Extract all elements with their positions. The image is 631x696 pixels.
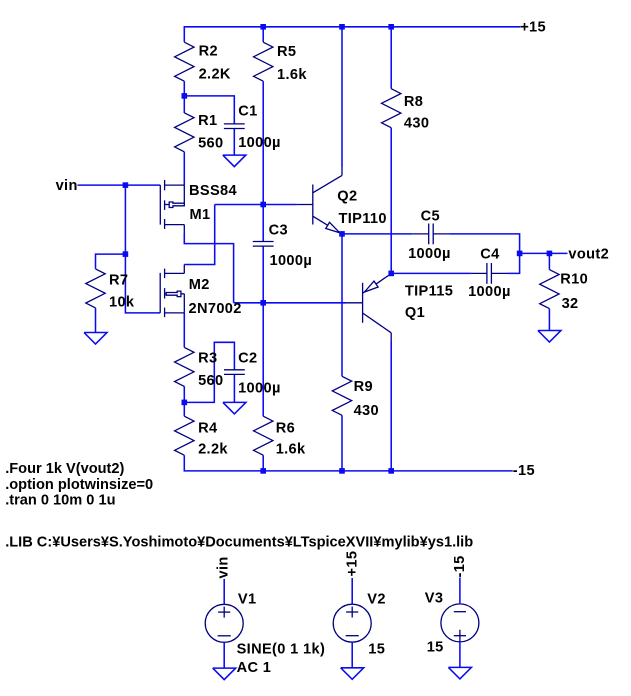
wire M1 drain to lower node [184, 233, 233, 303]
svg-text:M2: M2 [189, 277, 210, 293]
junction C (+15 / R8) [388, 24, 394, 30]
svg-text:R9: R9 [354, 379, 373, 395]
junction A (+15 / R5) [260, 24, 266, 30]
capacitor C3 [253, 242, 274, 247]
wire C3 bottom lead [262, 246, 264, 303]
svg-text:2.2K: 2.2K [199, 67, 231, 83]
wire R5 top lead [262, 27, 264, 42]
svg-text:.option plotwinsize=0: .option plotwinsize=0 [5, 477, 153, 493]
svg-text:R10: R10 [560, 272, 588, 288]
capacitor C2 [224, 370, 245, 375]
ground ground at R7 [84, 333, 107, 345]
svg-text:Q1: Q1 [405, 305, 425, 321]
svg-text:10k: 10k [109, 295, 135, 311]
wire Q1 collector to -15 [390, 341, 392, 471]
transistor Q1 PNP TIP115 [347, 274, 392, 341]
resistor R2 [175, 42, 194, 81]
resistor R4 [175, 416, 194, 455]
svg-text:TIP110: TIP110 [339, 211, 387, 227]
svg-text:1.6k: 1.6k [277, 67, 307, 83]
resistor R7 [86, 269, 105, 308]
ground ground at C1 [223, 155, 246, 167]
wire R6 top lead [262, 303, 264, 416]
wire V1 bottom lead [223, 642, 225, 668]
capacitor C1 [224, 124, 245, 129]
svg-text:V3: V3 [425, 590, 444, 606]
resistor R3 [175, 347, 194, 386]
svg-text:1000µ: 1000µ [408, 246, 451, 262]
wire R4 top lead [183, 402, 185, 416]
junction I (C5 / C4 / vout2) [517, 251, 523, 257]
wire Q1 emitter to C4 [391, 272, 471, 274]
svg-text:R3: R3 [198, 350, 217, 366]
svg-text:C2: C2 [238, 350, 257, 366]
svg-text:.LIB C:¥Users¥S.Yoshimoto¥Docu: .LIB C:¥Users¥S.Yoshimoto¥Documents¥LTsp… [5, 534, 473, 550]
svg-text:+15: +15 [520, 20, 546, 36]
svg-text:560: 560 [198, 373, 223, 389]
svg-text:C4: C4 [480, 246, 500, 262]
transistor Q2 NPN TIP110 [297, 167, 342, 234]
svg-text:C3: C3 [269, 223, 288, 239]
junction P (-15 / Q1 collector) [388, 468, 394, 474]
svg-text:R1: R1 [198, 113, 217, 129]
svg-text:1000µ: 1000µ [238, 380, 281, 396]
junction F (C3 top / Q2 base) [260, 202, 266, 208]
resistor R6 [254, 416, 273, 455]
voltage source V3 [441, 604, 479, 642]
svg-text:M1: M1 [190, 207, 211, 223]
svg-text:R7: R7 [109, 272, 128, 288]
svg-text:-15: -15 [452, 555, 468, 577]
svg-text:R2: R2 [199, 44, 218, 60]
svg-text:+15: +15 [345, 551, 361, 577]
C4 leads [471, 272, 508, 274]
wire R8 bottom lead [390, 128, 392, 274]
resistor R9 [332, 376, 351, 415]
svg-text:1.6k: 1.6k [276, 442, 306, 458]
svg-text:430: 430 [404, 116, 429, 132]
svg-text:Q2: Q2 [337, 189, 357, 205]
wire upper node to Q2 base [215, 204, 297, 206]
wire R1 bottom lead [183, 152, 185, 185]
junction B (+15 / Q2 collector) [339, 24, 345, 30]
ground ground at V2 [341, 668, 364, 680]
svg-text:C1: C1 [238, 104, 257, 120]
svg-text:R8: R8 [404, 94, 423, 110]
wire C1 to ground [233, 129, 235, 156]
svg-text:430: 430 [354, 403, 379, 419]
transistor M2 NMOS 2N7002 [160, 265, 184, 318]
wire vout node to vout2 [520, 252, 568, 254]
wire M2 source to R3 [183, 313, 185, 348]
junction D (R2/R1/C1) [182, 93, 188, 99]
voltage source V1 [205, 604, 243, 642]
transistor M1 PMOS BSS84 [160, 180, 184, 233]
wire R2-R1 node vertical [183, 81, 185, 113]
wire R8 top lead [390, 27, 392, 89]
svg-text:.Four 1k V(vout2): .Four 1k V(vout2) [5, 461, 124, 477]
C5 leads [412, 233, 449, 235]
ground ground at V3 [448, 667, 471, 679]
svg-text:TIP115: TIP115 [405, 284, 453, 300]
wire vin node down to M2 gate [125, 185, 160, 313]
junction M (R3 / R4 / C2) [182, 400, 188, 406]
wire +15 rail [184, 27, 520, 42]
svg-text:1000µ: 1000µ [468, 284, 511, 300]
junction O (-15 / R9) [339, 468, 345, 474]
svg-text:vout2: vout2 [568, 247, 609, 263]
wire R7 bottom lead [95, 308, 97, 333]
wire C5 to vout node [449, 234, 519, 254]
svg-text:V2: V2 [367, 591, 386, 607]
wire R9 bottom lead [341, 415, 343, 471]
svg-text:C5: C5 [421, 209, 440, 225]
wire V1 top lead [223, 579, 225, 605]
capacitor C4 [487, 263, 492, 284]
wire node to R7 [96, 254, 126, 269]
wire C2 to ground [233, 374, 235, 402]
junction E (vin / M1 gate) [123, 182, 129, 188]
junction G (Q2 emitter / R9 / C5) [339, 231, 345, 237]
svg-text:1000µ: 1000µ [270, 253, 313, 269]
svg-text:V1: V1 [238, 591, 257, 607]
wire lower node to Q1 base [234, 302, 347, 304]
wire Q2 emitter to C5 [342, 233, 412, 235]
ground ground at C2 [223, 402, 246, 414]
ground ground at R10 [538, 331, 561, 343]
svg-text:2N7002: 2N7002 [189, 301, 242, 317]
voltage source V2 [333, 604, 371, 642]
svg-text:-15: -15 [513, 463, 535, 479]
junction N (-15 / R6) [260, 468, 266, 474]
wire R3 bottom lead [183, 386, 185, 402]
ground ground at V1 [213, 668, 236, 680]
svg-text:1000µ: 1000µ [238, 135, 281, 151]
svg-text:2.2k: 2.2k [198, 442, 228, 458]
svg-text:vin: vin [216, 556, 232, 578]
svg-text:R4: R4 [198, 420, 218, 436]
wire node to C1 [184, 96, 234, 124]
junction H (vin / R7) [123, 251, 129, 257]
wire R6 bottom lead [262, 455, 264, 471]
resistor R8 [382, 89, 401, 128]
wire -15 rail [184, 455, 513, 471]
junction L (C3 bottom / R6 / Q1 base) [260, 300, 266, 306]
svg-text:BSS84: BSS84 [189, 183, 238, 199]
svg-text:15: 15 [427, 640, 444, 656]
resistor R10 [540, 270, 559, 309]
svg-text:R6: R6 [276, 420, 295, 436]
wire vin to M1 gate [78, 184, 161, 186]
junction J (vout2 / R10) [547, 251, 553, 257]
wire Q2 collector to +15 [341, 27, 343, 167]
wire V3 bottom lead [459, 642, 461, 668]
svg-text:R5: R5 [277, 44, 296, 60]
svg-text:SINE(0 1 1k): SINE(0 1 1k) [237, 642, 326, 658]
capacitor C5 [429, 224, 434, 245]
wire R9 top lead [341, 234, 343, 376]
wire R10 top lead [548, 253, 550, 269]
svg-text:560: 560 [198, 136, 223, 152]
wire M2 drain to upper node [184, 205, 214, 265]
resistor R5 [254, 42, 273, 81]
wire R5 bottom lead to C3 node [262, 81, 264, 204]
wire C4 to vout node [508, 253, 520, 273]
wire R10 bottom lead [548, 309, 550, 331]
wire V2 bottom lead [351, 642, 353, 668]
resistor R1 [175, 113, 194, 152]
wire C3 top lead [262, 205, 264, 242]
junction K (Q1 emitter / R8 / C4) [388, 271, 394, 277]
svg-text:15: 15 [368, 642, 385, 658]
svg-text:.tran 0 10m 0 1u: .tran 0 10m 0 1u [5, 493, 115, 509]
wire node to C2 [184, 342, 234, 402]
svg-text:32: 32 [562, 296, 579, 312]
wire V2 top lead [351, 578, 353, 605]
wire V3 top lead [459, 578, 461, 605]
svg-text:AC 1: AC 1 [237, 660, 272, 676]
svg-text:vin: vin [56, 178, 78, 194]
